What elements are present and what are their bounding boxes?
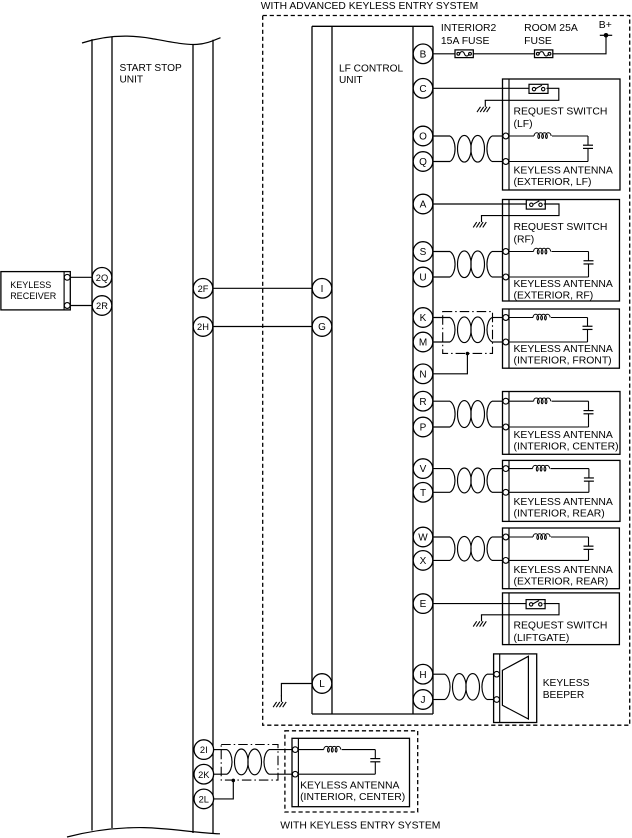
svg-text:O: O: [419, 132, 427, 143]
wire pin S to antenna exterior RF: [433, 251, 450, 253]
twisted pair W-X: [450, 536, 492, 561]
interior center box connector inner edge: [508, 392, 510, 455]
pin I: [312, 279, 332, 299]
capacitor (antenna interior center): [584, 411, 594, 414]
pin 2H: [193, 317, 213, 337]
svg-text:(LF): (LF): [514, 119, 533, 130]
svg-text:G: G: [318, 322, 326, 333]
inductor (antenna interior rear): [533, 465, 550, 471]
fuse ROOM 25A: [535, 50, 553, 58]
pin 2I: [194, 740, 214, 760]
antenna terminal LF upper: [503, 133, 509, 139]
pin B: [413, 44, 433, 64]
wire twisted pair to antenna terminals (RF): [492, 251, 503, 253]
start stop unit torn top edge: [82, 36, 221, 44]
start stop unit left inner edge: [111, 37, 113, 828]
antenna interior front coil circuit: [509, 318, 588, 343]
request switch (liftgate) box: [503, 593, 620, 645]
svg-text:KEYLESS ANTENNA: KEYLESS ANTENNA: [514, 430, 613, 441]
wire pin M to antenna interior front: [433, 341, 450, 343]
svg-text:START STOP: START STOP: [120, 63, 183, 74]
svg-text:WITH ADVANCED KEYLESS ENTRY SY: WITH ADVANCED KEYLESS ENTRY SYSTEM: [261, 1, 478, 12]
pin L: [312, 674, 332, 694]
start stop unit right outer edge: [212, 40, 214, 834]
antenna exterior LF coil circuit: [509, 136, 588, 162]
antenna terminal RF upper: [503, 249, 509, 255]
svg-text:L: L: [319, 679, 325, 690]
pin T: [413, 483, 433, 503]
wire pin O to antenna exterior LF: [433, 135, 450, 137]
svg-text:U: U: [419, 273, 426, 284]
antenna terminal interior front lower: [503, 339, 509, 345]
svg-text:REQUEST SWITCH: REQUEST SWITCH: [514, 621, 608, 632]
svg-text:KEYLESS ANTENNA: KEYLESS ANTENNA: [514, 497, 613, 508]
svg-text:E: E: [420, 599, 427, 610]
pin 2K: [194, 764, 214, 784]
wire twisted pair to antenna terminals (interior front): [492, 317, 503, 319]
request switch / keyless antenna (exterior LF) box: [503, 79, 621, 190]
inductor (antenna interior front): [533, 314, 550, 320]
wire request switch liftgate to ground: [482, 604, 560, 616]
pin K: [413, 308, 433, 328]
svg-text:W: W: [418, 533, 428, 544]
inductor (antenna interior center): [534, 398, 551, 404]
svg-text:FUSE: FUSE: [524, 36, 552, 47]
shield (dash-dot) around twisted pair K-M: [443, 312, 493, 354]
pin 2R: [92, 296, 112, 316]
ground (request switch RF): [473, 216, 486, 228]
svg-text:(LIFTGATE): (LIFTGATE): [514, 633, 570, 644]
wire pin 2I to antenna interior center 2: [213, 749, 227, 751]
request switch / keyless antenna (exterior RF) box: [503, 200, 620, 302]
pin W: [413, 527, 433, 547]
lf control unit bottom edge: [312, 713, 433, 715]
antenna terminal exterior rear upper: [503, 534, 509, 540]
antenna terminal interior front upper: [503, 315, 509, 321]
capacitor (antenna exterior RF): [584, 261, 594, 264]
interior rear box connector inner edge: [508, 460, 510, 521]
svg-text:WITH KEYLESS ENTRY SYSTEM: WITH KEYLESS ENTRY SYSTEM: [280, 821, 440, 832]
svg-text:S: S: [420, 247, 427, 258]
svg-text:I: I: [321, 284, 324, 295]
request switch LF: [529, 84, 548, 93]
svg-text:B+: B+: [599, 20, 612, 31]
wire pin H to beeper: [433, 673, 445, 675]
pin O: [413, 126, 433, 146]
antenna terminal RF lower: [503, 274, 509, 280]
svg-text:(INTERIOR, CENTER): (INTERIOR, CENTER): [300, 792, 405, 803]
keyless antenna (interior center) box: [503, 392, 621, 455]
pin A: [413, 194, 433, 214]
wire pin N to shield: [433, 354, 467, 374]
liftgate box connector inner edge: [508, 593, 510, 645]
pin 2L: [194, 789, 214, 809]
svg-text:A: A: [420, 200, 427, 211]
svg-text:H: H: [419, 670, 426, 681]
pin R: [413, 391, 433, 411]
wire pin K to antenna interior front: [433, 317, 450, 319]
wire twisted pair to antenna terminals (bottom): [269, 749, 292, 751]
lf control unit right outer edge: [432, 26, 434, 714]
svg-text:X: X: [420, 556, 427, 567]
pin V: [413, 459, 433, 479]
svg-text:2I: 2I: [200, 745, 208, 755]
keyless beeper box: [494, 654, 537, 723]
ground (request switch LF): [477, 100, 490, 112]
capacitor (antenna interior rear): [584, 478, 594, 481]
wire twisted pair to antenna terminals (interior rear): [492, 468, 503, 470]
svg-text:UNIT: UNIT: [120, 74, 144, 85]
pin J: [413, 690, 433, 710]
wire receiver to pin 2Q: [70, 276, 92, 278]
pin H: [413, 664, 433, 684]
with advanced keyless entry system boundary (dashed): [263, 16, 630, 726]
keyless receiver box: [1, 272, 70, 310]
wire pin 2H to pin G: [213, 326, 312, 328]
inductor (antenna exterior rear): [533, 534, 550, 540]
request switch RF: [526, 200, 545, 209]
capacitor (bottom antenna): [370, 759, 380, 762]
beeper terminal lower: [494, 697, 500, 703]
wire pin 2F to pin I: [213, 287, 312, 289]
wire pin J to beeper: [433, 699, 445, 701]
wire pin W to antenna exterior rear: [433, 536, 450, 538]
inductor (antenna exterior RF): [534, 248, 551, 254]
svg-text:INTERIOR2: INTERIOR2: [441, 23, 497, 34]
rf group box connector inner edge: [508, 200, 510, 302]
keyless antenna (interior center, bottom) box: [292, 738, 410, 806]
svg-text:(EXTERIOR, REAR): (EXTERIOR, REAR): [514, 577, 609, 588]
pin P: [413, 417, 433, 437]
svg-text:KEYLESS ANTENNA: KEYLESS ANTENNA: [300, 780, 399, 791]
svg-text:(INTERIOR, FRONT): (INTERIOR, FRONT): [514, 356, 612, 367]
svg-text:(INTERIOR, REAR): (INTERIOR, REAR): [514, 509, 605, 520]
antenna interior rear coil circuit: [509, 469, 589, 493]
wire twisted pair to beeper terminals: [487, 673, 494, 675]
twisted pair K-M: [450, 317, 492, 343]
antenna terminal interior rear upper: [503, 466, 509, 472]
lf control unit left inner edge: [331, 26, 333, 714]
wire pin A to request switch RF: [433, 203, 526, 205]
svg-text:KEYLESS ANTENNA: KEYLESS ANTENNA: [514, 344, 613, 355]
svg-text:ROOM 25A: ROOM 25A: [524, 23, 578, 34]
lf control unit right inner edge: [412, 26, 414, 714]
pin U: [413, 267, 433, 287]
beeper speaker symbol: [502, 656, 528, 719]
lf control unit top edge: [312, 25, 433, 27]
svg-text:2H: 2H: [197, 322, 209, 332]
wire pin 2L to shield: [213, 781, 233, 799]
wire pin E to request switch liftgate: [433, 603, 526, 605]
antenna terminal interior rear lower: [503, 489, 509, 495]
capacitor (antenna exterior LF): [583, 145, 593, 148]
pin C: [413, 79, 433, 99]
shield (dash-dot) around twisted pair 2I-2K: [221, 745, 278, 781]
wire pin B to interior2 fuse: [433, 53, 455, 55]
twisted pair R-P: [450, 401, 492, 428]
svg-text:KEYLESS ANTENNA: KEYLESS ANTENNA: [514, 165, 613, 176]
svg-text:RECEIVER: RECEIVER: [10, 291, 57, 301]
pin X: [413, 551, 433, 571]
wire request switch RF to ground: [482, 204, 560, 216]
pin N: [413, 364, 433, 384]
pin S: [413, 242, 433, 262]
svg-text:UNIT: UNIT: [339, 75, 363, 86]
keyless antenna (interior front) box: [503, 309, 620, 368]
wire pin 2K to antenna interior center 2: [213, 773, 227, 775]
with keyless entry system boundary (dashed): [285, 731, 418, 812]
interior front box connector inner edge: [508, 309, 510, 368]
wire pin P to antenna interior center: [433, 426, 450, 428]
svg-text:2R: 2R: [96, 301, 108, 311]
inductor (antenna exterior LF): [534, 133, 551, 139]
svg-text:2L: 2L: [199, 795, 209, 805]
keyless antenna (interior rear) box: [503, 460, 621, 521]
start stop unit torn bottom edge: [67, 828, 220, 837]
twisted pair V-T: [450, 468, 492, 493]
wire pin T to antenna interior rear: [433, 491, 450, 493]
ground (pin L): [273, 695, 286, 707]
wire twisted pair to antenna terminals (LF): [492, 135, 503, 137]
pin G: [312, 317, 332, 337]
bottom antenna terminal upper: [292, 747, 298, 753]
wire pin Q to antenna exterior LF: [433, 161, 450, 163]
antenna terminal interior center lower: [503, 424, 509, 430]
wire request switch LF to ground: [485, 88, 559, 101]
capacitor (antenna interior front): [583, 326, 593, 329]
twisted pair S-U: [450, 251, 492, 278]
svg-text:REQUEST SWITCH: REQUEST SWITCH: [514, 107, 608, 118]
svg-text:J: J: [421, 695, 426, 706]
svg-text:V: V: [420, 464, 427, 475]
beeper connector inner edge: [499, 654, 501, 723]
svg-text:KEYLESS ANTENNA: KEYLESS ANTENNA: [514, 279, 613, 290]
svg-text:REQUEST SWITCH: REQUEST SWITCH: [514, 222, 608, 233]
capacitor (antenna exterior rear): [584, 546, 594, 549]
svg-text:(EXTERIOR, RF): (EXTERIOR, RF): [514, 290, 594, 301]
wire twisted pair to antenna terminals (interior center): [492, 400, 503, 402]
wire pin L to ground: [281, 684, 312, 697]
svg-text:C: C: [419, 84, 426, 95]
svg-text:P: P: [420, 423, 427, 434]
B+ supply symbol: [600, 33, 612, 38]
wire pin R to antenna interior center: [433, 400, 450, 402]
svg-text:(EXTERIOR, LF): (EXTERIOR, LF): [514, 177, 592, 188]
pin E: [413, 594, 433, 614]
keyless receiver connector inner edge: [63, 272, 65, 310]
bottom antenna coil circuit: [298, 750, 375, 775]
shield junction dot (2L): [232, 779, 236, 783]
exterior rear box connector inner edge: [508, 528, 510, 589]
wire interior2 fuse to room fuse: [474, 53, 535, 55]
svg-text:2Q: 2Q: [96, 273, 108, 283]
inductor (bottom antenna): [324, 746, 341, 752]
svg-text:N: N: [419, 369, 426, 380]
wire twisted pair to antenna terminals (exterior rear): [492, 536, 503, 538]
lf group box connector inner edge: [508, 79, 510, 190]
svg-text:2F: 2F: [198, 284, 209, 294]
wire room fuse to B+ node: [553, 35, 606, 54]
lf control unit left outer edge: [311, 26, 313, 714]
svg-text:KEYLESS: KEYLESS: [543, 678, 590, 689]
svg-text:2K: 2K: [198, 770, 210, 780]
svg-text:K: K: [420, 313, 427, 324]
pin M: [413, 332, 433, 352]
pin 2Q: [92, 268, 112, 288]
antenna terminal interior center upper: [503, 398, 509, 404]
svg-text:LF CONTROL: LF CONTROL: [339, 63, 404, 74]
antenna terminal LF lower: [503, 159, 509, 165]
svg-text:(RF): (RF): [514, 234, 535, 245]
svg-text:15A FUSE: 15A FUSE: [441, 36, 490, 47]
svg-text:R: R: [419, 397, 426, 408]
shield junction dot: [466, 352, 470, 356]
antenna exterior rear coil circuit: [509, 537, 589, 560]
start stop unit left outer edge: [91, 39, 93, 830]
svg-text:KEYLESS ANTENNA: KEYLESS ANTENNA: [514, 565, 613, 576]
twisted pair O-Q: [450, 135, 492, 162]
beeper terminal upper: [494, 671, 500, 677]
antenna interior center coil circuit: [509, 401, 589, 427]
svg-text:BEEPER: BEEPER: [543, 690, 585, 701]
antenna terminal exterior rear lower: [503, 558, 509, 564]
bottom antenna terminal lower: [292, 771, 298, 777]
wire pin V to antenna interior rear: [433, 468, 450, 470]
wire pin X to antenna exterior rear: [433, 559, 450, 561]
wire pin C to request switch LF: [433, 87, 529, 89]
svg-text:T: T: [420, 488, 426, 499]
twisted pair H-J: [445, 674, 487, 701]
wire receiver to pin 2R: [70, 305, 92, 307]
fuse INTERIOR2 15A: [455, 50, 473, 58]
svg-text:M: M: [419, 338, 427, 349]
antenna exterior RF coil circuit: [509, 252, 589, 278]
ground (request switch liftgate): [473, 615, 486, 627]
bottom antenna connector inner edge: [297, 738, 299, 806]
start stop unit right inner edge: [192, 44, 194, 833]
receiver terminal (lower): [64, 303, 70, 309]
svg-text:KEYLESS: KEYLESS: [10, 280, 51, 290]
request switch LIFTGATE: [526, 600, 545, 609]
twisted pair 2I-2K: [227, 749, 269, 775]
pin 2F: [193, 279, 213, 299]
pin Q: [413, 152, 433, 172]
svg-text:Q: Q: [419, 157, 427, 168]
wire pin U to antenna exterior RF: [433, 276, 450, 278]
receiver terminal (upper): [64, 274, 70, 280]
keyless antenna (exterior rear) box: [503, 528, 620, 589]
svg-text:(INTERIOR, CENTER): (INTERIOR, CENTER): [514, 442, 619, 453]
svg-text:B: B: [420, 49, 427, 60]
